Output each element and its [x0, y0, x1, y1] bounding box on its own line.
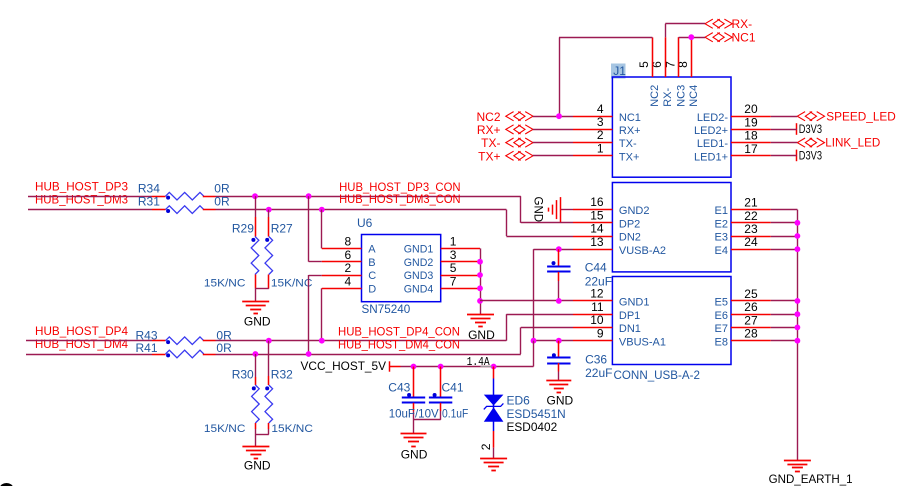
capacitor C36 value 22uF — [585, 366, 612, 380]
svg-text:22uF: 22uF — [585, 366, 612, 380]
svg-text:HUB_HOST_DM3_CON: HUB_HOST_DM3_CON — [339, 192, 461, 206]
svg-text:CONN_USB-A-2: CONN_USB-A-2 — [614, 368, 701, 382]
svg-text:DN2: DN2 — [619, 232, 641, 244]
svg-text:GND1: GND1 — [404, 244, 434, 256]
junction DM4-U6C — [306, 351, 312, 357]
svg-text:GND: GND — [547, 394, 574, 408]
svg-text:18: 18 — [744, 129, 758, 143]
resistor R29 value 15K/NC — [204, 277, 246, 289]
svg-text:E7: E7 — [715, 323, 728, 335]
connector J1 box B — [612, 183, 731, 272]
svg-text:2: 2 — [345, 261, 352, 275]
ground C43/C41 — [401, 434, 427, 447]
svg-text:NC1: NC1 — [732, 31, 756, 45]
port LINK_LED — [797, 136, 880, 150]
svg-text:15K/NC: 15K/NC — [271, 277, 313, 289]
svg-text:ESD0402: ESD0402 — [507, 420, 558, 434]
svg-text:0R: 0R — [214, 195, 230, 209]
capacitor C36 label — [585, 353, 607, 367]
svg-text:7: 7 — [450, 275, 457, 289]
svg-text:20: 20 — [744, 102, 758, 116]
svg-text:GND2: GND2 — [404, 257, 434, 269]
junction GND1 C44 — [556, 298, 562, 304]
resistor R30 label — [232, 368, 254, 382]
resistor R31 label — [138, 195, 160, 209]
svg-text:15K/NC: 15K/NC — [271, 423, 313, 435]
svg-text:GND4: GND4 — [404, 283, 434, 295]
ground label GND sideways — [531, 197, 543, 223]
J1 box A right pin numbers — [744, 102, 758, 156]
junction C44 top — [556, 246, 562, 252]
port NC2 — [476, 110, 533, 124]
svg-text:28: 28 — [744, 327, 758, 341]
svg-text:HUB_HOST_DM3: HUB_HOST_DM3 — [35, 193, 128, 207]
resistor R34 — [152, 192, 216, 200]
junction C36 top — [556, 338, 562, 344]
svg-text:C43: C43 — [388, 381, 410, 395]
J1 box C left pin names — [619, 297, 666, 349]
resistor R30 value 15K/NC — [204, 423, 246, 435]
svg-text:1: 1 — [597, 141, 604, 155]
power port D3V3 (pin19) — [797, 122, 823, 136]
svg-text:TX+: TX+ — [619, 151, 639, 163]
wire U6 pin B from DP3 — [309, 196, 362, 262]
wire SPEED_LED — [771, 116, 798, 118]
wire R29/R27 to ground — [255, 275, 269, 302]
J1 box A left pin names — [619, 112, 641, 164]
svg-text:D: D — [368, 283, 376, 295]
J1 top pin numbers 5 6 7 8 — [637, 61, 690, 68]
junction VBUS riser — [531, 338, 537, 344]
net label HUB_HOST_DM3_CON — [339, 192, 461, 206]
junction U6 GND bus — [477, 259, 483, 304]
svg-text:E5: E5 — [715, 297, 728, 309]
capacitor C41 — [414, 367, 453, 420]
junction E bus dots — [795, 220, 801, 344]
svg-text:HUB_HOST_DP3: HUB_HOST_DP3 — [35, 179, 128, 193]
wire HUB_HOST_DP3 — [28, 196, 573, 223]
svg-text:NC4: NC4 — [688, 85, 700, 107]
wire TX- — [533, 142, 573, 144]
svg-text:VBUS-A1: VBUS-A1 — [619, 336, 666, 348]
svg-text:4: 4 — [597, 102, 604, 116]
net label HUB_HOST_DM4 — [35, 337, 128, 351]
J1 box A right pin names — [694, 112, 728, 164]
resistor R27 — [265, 237, 273, 275]
wire RX+ — [533, 129, 573, 131]
resistor R32 — [265, 385, 273, 423]
wire LINK_LED — [771, 142, 798, 144]
resistor R29 label — [232, 222, 254, 236]
svg-text:E3: E3 — [715, 232, 728, 244]
svg-text:0R: 0R — [214, 181, 230, 195]
svg-text:NC3: NC3 — [675, 85, 687, 107]
svg-text:SN75240: SN75240 — [362, 302, 411, 316]
svg-text:NC2: NC2 — [476, 110, 500, 124]
capacitor C43 value 10uF/10V — [389, 407, 439, 421]
J1 box B left pin numbers — [590, 195, 604, 249]
ground label GND (U6) — [468, 328, 495, 342]
diode ED6 value ESD5451N — [507, 407, 566, 421]
svg-text:LINK_LED: LINK_LED — [825, 136, 880, 150]
junction DM4-R30 — [253, 351, 259, 357]
connector J1 box C — [612, 277, 731, 365]
svg-text:HUB_HOST_DM4: HUB_HOST_DM4 — [35, 337, 128, 351]
connector J1 box A — [612, 77, 731, 177]
diode ED6 footprint ESD0402 — [507, 420, 558, 434]
ground R29/R27 — [242, 302, 269, 314]
svg-text:SPEED_LED: SPEED_LED — [826, 109, 896, 123]
svg-text:D3V3: D3V3 — [799, 122, 822, 136]
svg-text:16: 16 — [590, 195, 604, 209]
svg-text:3: 3 — [450, 248, 457, 262]
svg-text:21: 21 — [744, 196, 758, 210]
svg-text:22uF: 22uF — [585, 275, 612, 289]
U6 value SN75240 — [362, 302, 411, 316]
svg-text:GND: GND — [401, 447, 428, 461]
svg-text:J1: J1 — [613, 64, 626, 78]
J1 box B right pin names — [715, 205, 728, 257]
resistor R29 — [251, 237, 259, 275]
port TX- — [481, 136, 533, 150]
resistor R43 value 0R — [216, 329, 232, 343]
resistor R30 — [252, 385, 260, 423]
wire U6 pin C from DM4 — [309, 275, 362, 354]
ground R30/R32 — [242, 447, 269, 459]
wire GND1 pin12 — [480, 300, 573, 302]
svg-text:2: 2 — [597, 128, 604, 142]
resistor R31 — [152, 206, 216, 214]
svg-text:1: 1 — [450, 235, 457, 249]
svg-text:19: 19 — [744, 115, 758, 129]
svg-text:23: 23 — [744, 222, 758, 236]
svg-text:R34: R34 — [138, 181, 160, 195]
svg-text:ESD5451N: ESD5451N — [507, 407, 566, 421]
ground GND2 sideways — [549, 197, 561, 222]
resistor R34 label — [138, 181, 160, 195]
port TX+ — [478, 149, 533, 163]
resistor R43 label — [136, 329, 158, 343]
wire R27 top — [268, 210, 270, 237]
wire U6 pin A from DM3 — [322, 210, 362, 249]
svg-text:HUB_HOST_DP4: HUB_HOST_DP4 — [35, 324, 128, 338]
svg-text:DN1: DN1 — [619, 323, 641, 335]
svg-text:VUSB-A2: VUSB-A2 — [619, 245, 666, 257]
wire U6 pin D from DP4 — [322, 288, 362, 340]
wire HUB_HOST_DP4 — [26, 314, 573, 341]
diode ED6 symbol — [484, 395, 504, 422]
ground label GND (R30/R32) — [244, 459, 271, 473]
svg-text:14: 14 — [590, 222, 604, 236]
connector J1 refdes — [613, 64, 626, 78]
svg-text:GND3: GND3 — [404, 270, 434, 282]
svg-text:GND_EARTH_1: GND_EARTH_1 — [769, 472, 853, 486]
svg-text:9: 9 — [597, 326, 604, 340]
svg-text:RX-: RX- — [732, 17, 753, 31]
net label HUB_HOST_DP3_CON — [339, 180, 461, 194]
svg-text:22: 22 — [744, 209, 758, 223]
svg-text:C41: C41 — [442, 381, 464, 395]
svg-text:E2: E2 — [715, 218, 728, 230]
svg-text:HUB_HOST_DM4_CON: HUB_HOST_DM4_CON — [338, 338, 460, 352]
junction DP3-U6B — [306, 193, 312, 199]
ground label GND (C36) — [547, 394, 574, 408]
port SPEED_LED — [797, 109, 896, 123]
junction DM3-U6A — [319, 207, 325, 213]
wire RX- — [665, 24, 705, 38]
svg-text:E1: E1 — [715, 205, 728, 217]
power port VCC_HOST_5V — [301, 359, 401, 373]
svg-text:LED1+: LED1+ — [694, 151, 728, 163]
J1 box B left pin names — [619, 205, 666, 257]
svg-text:ED6: ED6 — [507, 394, 531, 408]
wire E bus — [771, 210, 798, 461]
svg-text:C44: C44 — [585, 260, 607, 274]
svg-text:8: 8 — [345, 235, 352, 249]
svg-text:NC1: NC1 — [619, 112, 641, 124]
J1 box C right pin names — [715, 297, 728, 349]
capacitor C41 label — [442, 381, 464, 395]
wire R29 top — [255, 196, 257, 236]
resistor R31 value 0R — [214, 195, 230, 209]
svg-text:TX-: TX- — [619, 138, 637, 150]
resistor R34 value 0R — [214, 181, 230, 195]
resistor R43 — [152, 337, 216, 345]
svg-text:DP1: DP1 — [619, 310, 640, 322]
svg-text:GND: GND — [531, 197, 543, 223]
port RX- — [705, 17, 752, 31]
svg-text:GND: GND — [468, 328, 495, 342]
capacitor C41 value 0.1uF — [442, 407, 468, 421]
svg-text:TX-: TX- — [481, 136, 500, 150]
junction NC2 riser — [556, 113, 562, 119]
svg-text:R31: R31 — [138, 195, 160, 209]
svg-text:GND1: GND1 — [619, 297, 650, 309]
resistor R27 label — [271, 222, 293, 236]
J1 top pin stubs — [653, 37, 692, 77]
svg-text:15K/NC: 15K/NC — [204, 277, 246, 289]
connector J1 value CONN_USB-A-2 — [614, 368, 701, 382]
svg-text:C36: C36 — [585, 353, 607, 367]
wire R30 top — [255, 354, 257, 385]
ground U6 — [467, 315, 494, 327]
svg-text:R29: R29 — [232, 222, 254, 236]
svg-text:NC2: NC2 — [649, 85, 661, 107]
resistor R32 value 15K/NC — [271, 423, 313, 435]
J1 right pin stubs — [731, 117, 771, 341]
capacitor C43 — [402, 367, 425, 434]
power port D3V3 (pin17) — [797, 149, 823, 163]
svg-text:6: 6 — [345, 248, 352, 262]
net label HUB_HOST_DP3 — [35, 179, 128, 193]
wire NC2 — [533, 37, 653, 116]
svg-text:A: A — [368, 244, 376, 256]
svg-text:U6: U6 — [357, 216, 373, 230]
svg-text:LED2+: LED2+ — [694, 125, 728, 137]
wire GND2 pin16 — [560, 209, 573, 211]
junction DP3-R29 — [252, 193, 258, 199]
svg-text:0.1uF: 0.1uF — [442, 407, 468, 421]
net label HUB_HOST_DM4_CON — [338, 338, 460, 352]
svg-text:11: 11 — [591, 300, 604, 314]
resistor R41 value 0R — [216, 341, 232, 355]
capacitor C44 — [547, 249, 570, 301]
wire D3V3 pin19 — [771, 129, 797, 131]
resistor R41 — [152, 350, 216, 358]
svg-text:24: 24 — [744, 235, 758, 249]
junction NC1 pin8 — [688, 34, 694, 40]
svg-text:10uF/10V: 10uF/10V — [389, 407, 439, 421]
J1 box C left pin numbers — [590, 287, 604, 341]
svg-text:5: 5 — [637, 61, 651, 68]
port RX+ — [477, 123, 533, 137]
capacitor C44 value 22uF — [585, 275, 612, 289]
diode ED6 wires — [493, 367, 495, 459]
U6 pin numbers left — [345, 235, 352, 289]
ground label GND — [244, 315, 271, 329]
svg-text:GND: GND — [244, 459, 271, 473]
diode ED6 pin number 2 — [479, 443, 493, 450]
ground label GND_EARTH_1 — [769, 472, 853, 486]
svg-text:C: C — [368, 270, 376, 282]
svg-text:R27: R27 — [271, 222, 293, 236]
svg-text:R30: R30 — [232, 368, 254, 382]
svg-text:2: 2 — [479, 443, 493, 450]
U6 refdes — [357, 216, 373, 230]
svg-text:E6: E6 — [715, 310, 728, 322]
wire NC1 — [679, 37, 705, 39]
svg-text:0R: 0R — [216, 341, 232, 355]
ground GND_EARTH_1 — [784, 461, 811, 472]
wire HUB_HOST_DM3 — [28, 210, 573, 237]
net label HUB_HOST_DP4 — [35, 324, 128, 338]
wire R30/R32 to ground — [255, 423, 268, 447]
resistor R32 label — [271, 368, 293, 382]
port NC1 — [705, 31, 756, 45]
U6 pin names — [368, 244, 433, 296]
wire TX+ — [533, 155, 573, 157]
diode ED6 label — [507, 394, 531, 408]
svg-text:5: 5 — [450, 261, 457, 275]
svg-text:E8: E8 — [715, 336, 728, 348]
svg-text:17: 17 — [744, 142, 758, 156]
svg-text:LED2-: LED2- — [697, 112, 729, 124]
junction DP4-U6D — [319, 338, 325, 344]
J1 left pin stubs — [573, 117, 612, 341]
capacitor C43 label — [388, 381, 410, 395]
ground C36 — [546, 381, 571, 393]
svg-text:VCC_HOST_5V: VCC_HOST_5V — [301, 359, 387, 373]
current label 1.4A — [467, 356, 492, 369]
J1 box C right pin numbers — [744, 287, 758, 341]
svg-text:27: 27 — [744, 313, 758, 327]
svg-text:R32: R32 — [271, 368, 293, 382]
wire R32 top — [268, 341, 270, 385]
svg-text:26: 26 — [744, 300, 758, 314]
J1 top pin names NC2 RX- NC3 NC4 — [649, 85, 700, 107]
svg-text:GND: GND — [244, 315, 271, 329]
ground label GND (C43/C41) — [401, 447, 428, 461]
corner mark — [0, 483, 13, 486]
svg-text:R41: R41 — [136, 341, 158, 355]
resistor R27 value 15K/NC — [271, 277, 313, 289]
svg-text:RX+: RX+ — [477, 123, 501, 137]
wire HUB_HOST_DM4 — [26, 327, 573, 354]
svg-text:25: 25 — [744, 287, 758, 301]
svg-text:15: 15 — [590, 208, 604, 222]
svg-text:TX+: TX+ — [478, 149, 500, 163]
svg-text:D3V3: D3V3 — [799, 149, 822, 163]
junction VCC C43 — [411, 364, 417, 370]
junction DM3-R27 — [266, 207, 272, 213]
J1 box A left pin numbers — [597, 102, 604, 156]
capacitor C36 — [547, 341, 570, 381]
J1 box B right pin numbers — [744, 196, 758, 250]
svg-text:DP2: DP2 — [619, 218, 640, 230]
wire VCC riser — [401, 341, 534, 367]
svg-text:4: 4 — [345, 275, 352, 289]
connector J1 refdes highlight — [611, 64, 626, 79]
U6 pin numbers right — [450, 235, 457, 289]
svg-text:B: B — [368, 257, 375, 269]
svg-text:RX+: RX+ — [619, 125, 641, 137]
op-amp U6 box — [362, 235, 441, 302]
ground ED6 — [480, 459, 507, 471]
junction DP4-R32 — [266, 338, 272, 344]
svg-text:15K/NC: 15K/NC — [204, 423, 246, 435]
capacitor C44 label — [585, 260, 607, 274]
svg-text:LED1-: LED1- — [697, 138, 729, 150]
resistor R41 label — [136, 341, 158, 355]
net label HUB_HOST_DM3 — [35, 193, 128, 207]
net label HUB_HOST_DP4_CON — [338, 324, 460, 338]
junction VCC ED6 — [491, 364, 497, 370]
wire VBUS-A1 pin9 — [534, 340, 574, 342]
svg-text:E4: E4 — [715, 245, 728, 257]
svg-text:GND2: GND2 — [619, 205, 650, 217]
junction VCC C41 — [438, 364, 444, 370]
wire VUSB-A2 pin13 — [534, 249, 574, 341]
svg-text:RX-: RX- — [662, 88, 674, 107]
wire U6 GND pins — [441, 248, 481, 314]
wire D3V3 pin17 — [771, 155, 797, 157]
svg-text:HUB_HOST_DP4_CON: HUB_HOST_DP4_CON — [338, 324, 460, 338]
